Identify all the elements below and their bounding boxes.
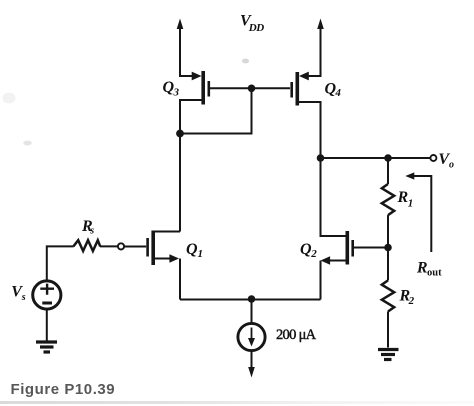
svg-text:s: s xyxy=(21,292,26,303)
svg-text:DD: DD xyxy=(248,22,264,34)
svg-text:Figure P10.39: Figure P10.39 xyxy=(11,381,116,398)
svg-text:Q: Q xyxy=(300,241,312,258)
svg-text:out: out xyxy=(427,267,442,278)
svg-text:R: R xyxy=(397,189,409,206)
svg-text:3: 3 xyxy=(173,86,180,98)
svg-text:1: 1 xyxy=(198,248,204,260)
svg-text:o: o xyxy=(449,160,454,171)
svg-text:4: 4 xyxy=(334,87,341,99)
svg-text:1: 1 xyxy=(408,198,414,210)
svg-text:200 μA: 200 μA xyxy=(276,327,317,343)
svg-text:s: s xyxy=(89,226,94,237)
svg-text:Q: Q xyxy=(186,241,198,258)
svg-text:2: 2 xyxy=(408,295,415,307)
svg-text:2: 2 xyxy=(310,248,317,260)
